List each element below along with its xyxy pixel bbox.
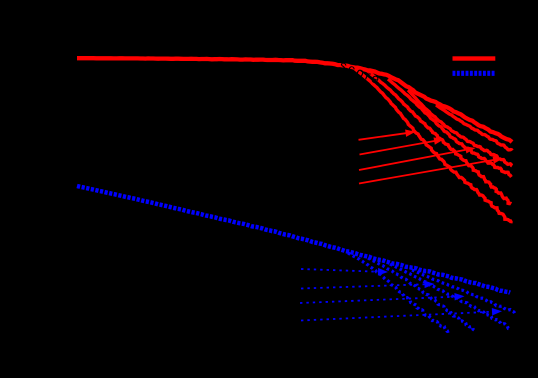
blue annotation arrow 2 xyxy=(301,284,428,288)
red annotation arrow 1 xyxy=(359,133,409,140)
blue annotation arrow 1 xyxy=(301,269,381,272)
blue annotation arrow 4 xyxy=(301,312,495,321)
blue branch 4 xyxy=(412,270,516,314)
blue branch 2 xyxy=(368,258,475,332)
red main curve xyxy=(77,58,512,142)
red branch 1 xyxy=(352,67,511,224)
blue main curve xyxy=(77,186,510,293)
red annotation arrow 3 xyxy=(359,149,469,170)
red branch 3 xyxy=(388,79,511,177)
red branch 2 xyxy=(368,72,511,204)
legend blue dashed line sample xyxy=(453,71,496,76)
blue branch 1 xyxy=(348,253,449,331)
red branch 4 xyxy=(408,90,512,166)
legend red solid line sample xyxy=(453,56,496,60)
blue branch 3 xyxy=(390,264,510,329)
red annotation arrow 4 xyxy=(359,160,496,184)
red annotation arrow 2 xyxy=(360,141,438,155)
blue annotation arrow 3 xyxy=(300,297,458,303)
red branch 5 xyxy=(436,105,512,151)
